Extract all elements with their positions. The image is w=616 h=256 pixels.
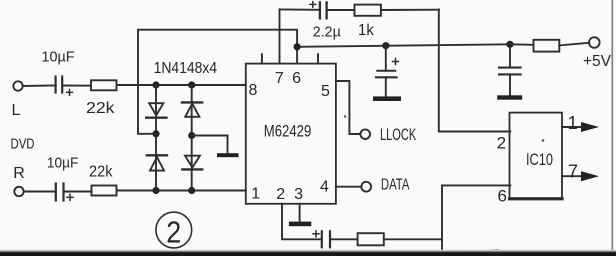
svg-text:6: 6 (292, 70, 301, 87)
node R-D2 junction (152, 187, 159, 194)
pin stub NC top-left (261, 54, 263, 63)
arrow pin 1 (581, 122, 599, 132)
wire mid node to ground G1 (192, 136, 228, 154)
diode D3 (182, 102, 202, 116)
node left diode mid (152, 130, 159, 137)
wire pin 5 to LLOCK (336, 81, 360, 134)
wire pin 6 vertical (441, 185, 443, 249)
wire pin 2 down to bottom rail (282, 204, 321, 240)
svg-text:L: L (12, 102, 21, 119)
node L-D3 junction (188, 81, 195, 88)
svg-text:3: 3 (294, 186, 303, 203)
svg-text:M62429: M62429 (264, 122, 312, 140)
arrow pin 7 (581, 171, 599, 181)
wire pin 7 up (279, 9, 281, 63)
svg-text:22k: 22k (86, 100, 116, 117)
ground G4 (497, 95, 522, 99)
scan speck near pin 5 (344, 115, 346, 117)
svg-text:+5V: +5V (583, 53, 611, 70)
svg-text:7: 7 (568, 162, 578, 182)
svg-text:22k: 22k (89, 164, 113, 181)
wire L line to pin 8 (117, 84, 246, 86)
svg-text:1: 1 (251, 186, 260, 203)
svg-text:2: 2 (276, 186, 285, 203)
terminal LLOCK (360, 129, 370, 139)
scan mark bottom right (462, 250, 498, 253)
node pin 6 junction (294, 43, 301, 50)
capacitor C3 2.2u (310, 2, 327, 19)
svg-text:4: 4 (320, 179, 329, 196)
scan bottom black bar (0, 250, 616, 256)
wire C3 to R2 (327, 9, 355, 11)
wire C6 to R4 (330, 238, 358, 240)
svg-text:LLOCK: LLOCK (380, 126, 416, 144)
svg-text:R: R (13, 165, 25, 182)
op-amp U2 IC10 box (510, 113, 563, 199)
wire L terminal to C1 (23, 85, 56, 88)
wire C2 to R5 (64, 191, 92, 193)
wire R2 to feedback vertical (381, 9, 439, 11)
resistor R5 22k (92, 186, 117, 196)
terminal R (14, 187, 23, 196)
wire VCC rail (297, 44, 510, 47)
capacitor C4 electrolytic (376, 46, 399, 97)
wire IC10 pin 1 output (562, 126, 582, 128)
svg-text:1N4148x4: 1N4148x4 (154, 60, 218, 77)
wire C1 to R1 (62, 85, 91, 87)
ground G3 (373, 96, 401, 101)
op-amp U1 M62429 box (246, 64, 336, 204)
pin stub NC top-right (317, 54, 319, 63)
capacitor C5 (499, 44, 521, 96)
terminal +5V (589, 37, 600, 48)
wire R4 to IC10 pin 6 branch (384, 238, 442, 240)
svg-text:7: 7 (275, 70, 284, 87)
wire R3 to +5V terminal (559, 43, 589, 46)
wire left diode chain (155, 85, 157, 191)
node R-D4 junction (188, 187, 195, 194)
svg-text:5: 5 (321, 83, 330, 100)
capacitor C1 10uF (56, 77, 73, 96)
svg-text:1: 1 (568, 113, 578, 133)
node C5 junction (506, 41, 513, 48)
wire to IC10 pin 6 (442, 184, 510, 186)
svg-text:2: 2 (166, 215, 181, 250)
terminal L (13, 81, 22, 90)
node L-D1 junction (152, 81, 159, 88)
ground G1 (217, 153, 239, 157)
wire pin 3 to ground (299, 204, 301, 222)
wire pin 4 to DATA (336, 186, 362, 188)
resistor R4 (358, 233, 384, 245)
node right diode mid (188, 132, 195, 139)
wire top feedback left (280, 8, 320, 10)
diode D1 (146, 103, 166, 118)
svg-text:2.2µ: 2.2µ (313, 24, 341, 41)
capacitor C2 10uF (56, 184, 73, 201)
svg-text:DATA: DATA (381, 177, 410, 194)
resistor R2 1k (355, 5, 381, 16)
wire feedback vertical to IC10 pin 2 (439, 9, 511, 131)
capacitor C6 electrolytic (313, 231, 330, 248)
svg-text:6: 6 (497, 187, 506, 206)
node C4 junction (382, 42, 389, 49)
svg-text:IC10: IC10 (526, 151, 553, 169)
diode D4 (182, 156, 202, 170)
diode D2 (147, 155, 167, 170)
terminal DATA (361, 182, 371, 192)
wire R line to pin 1 (117, 190, 246, 192)
svg-text:10µF: 10µF (42, 48, 75, 65)
svg-text:DVD: DVD (11, 135, 35, 152)
wire right diode chain (191, 85, 193, 191)
resistor R3 (534, 40, 560, 52)
wire C5 node to R3 (510, 43, 534, 46)
scan right edge line (611, 0, 613, 251)
figure number circle 2 (156, 212, 192, 248)
IC10 bottom edge bold (510, 197, 563, 200)
svg-text:2: 2 (497, 133, 506, 152)
svg-text:8: 8 (249, 82, 258, 99)
svg-text:1k: 1k (358, 22, 375, 39)
wire IC10 pin 7 output (562, 175, 582, 177)
wire R terminal to C2 (24, 191, 55, 193)
ground G2 (289, 222, 311, 227)
wire clamp reference (diode mid to pin 6) (138, 30, 297, 134)
scan speck inside IC10 (542, 139, 545, 142)
resistor R1 22k (91, 80, 117, 90)
svg-text:10µF: 10µF (47, 155, 79, 172)
